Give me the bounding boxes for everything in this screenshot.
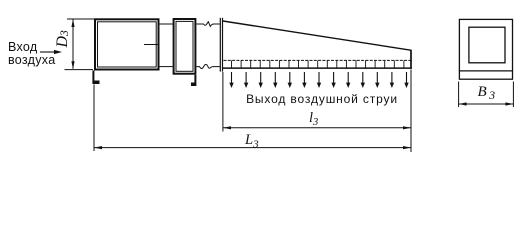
label B3 [478, 84, 498, 102]
broken connector top with break squiggle [197, 22, 220, 27]
duct slot divider ticks [232, 60, 404, 68]
svg-text:воздуха: воздуха [8, 53, 55, 67]
broken connector bottom with break squiggle [197, 64, 220, 68]
dimension D3 extension line top [67, 18, 94, 20]
small box inner [176, 21, 193, 71]
cross-section bottom separator [459, 70, 513, 72]
tapered duct bottom edge [223, 67, 412, 69]
connector duct big box to small box (top) [160, 23, 173, 25]
big box (fan/plenum) outer [95, 19, 159, 69]
extension line left (L3) [93, 85, 95, 152]
cross-section inner rect [469, 27, 505, 63]
duct slot dashed line [224, 59, 411, 61]
right support foot [191, 75, 196, 86]
outlet label "Выход воздушной струи" [246, 92, 398, 106]
label L3 [244, 132, 259, 150]
dimension l3 line [223, 127, 411, 129]
label l3 [309, 110, 318, 128]
extension line flange (l3) [222, 72, 224, 132]
label D3 (rotated) [54, 30, 71, 49]
dimension B3 line [459, 103, 514, 105]
tapered duct right end edge [410, 50, 412, 69]
inlet label "Вход воздуха" [8, 40, 55, 67]
inlet arrow [40, 51, 56, 53]
extension line right end (l3/L3) [410, 70, 412, 153]
dimension D3 line [72, 20, 74, 69]
B3 extension lines [458, 82, 460, 108]
left support foot [92, 71, 99, 85]
big box internal pointer line [144, 44, 160, 46]
cross-section outer rect [459, 19, 512, 79]
big box inner line [98, 22, 157, 67]
small box outer [174, 19, 196, 74]
inlet flange of duct [219, 18, 221, 72]
svg-text:Выход воздушной струи: Выход воздушной струи [246, 92, 398, 106]
air jet arrows [232, 72, 407, 84]
dimension L3 line [94, 147, 411, 149]
connector duct big box to small box (bottom) [160, 66, 173, 68]
dimension D3 extension line bottom [65, 69, 94, 71]
tapered duct top edge [223, 21, 412, 50]
